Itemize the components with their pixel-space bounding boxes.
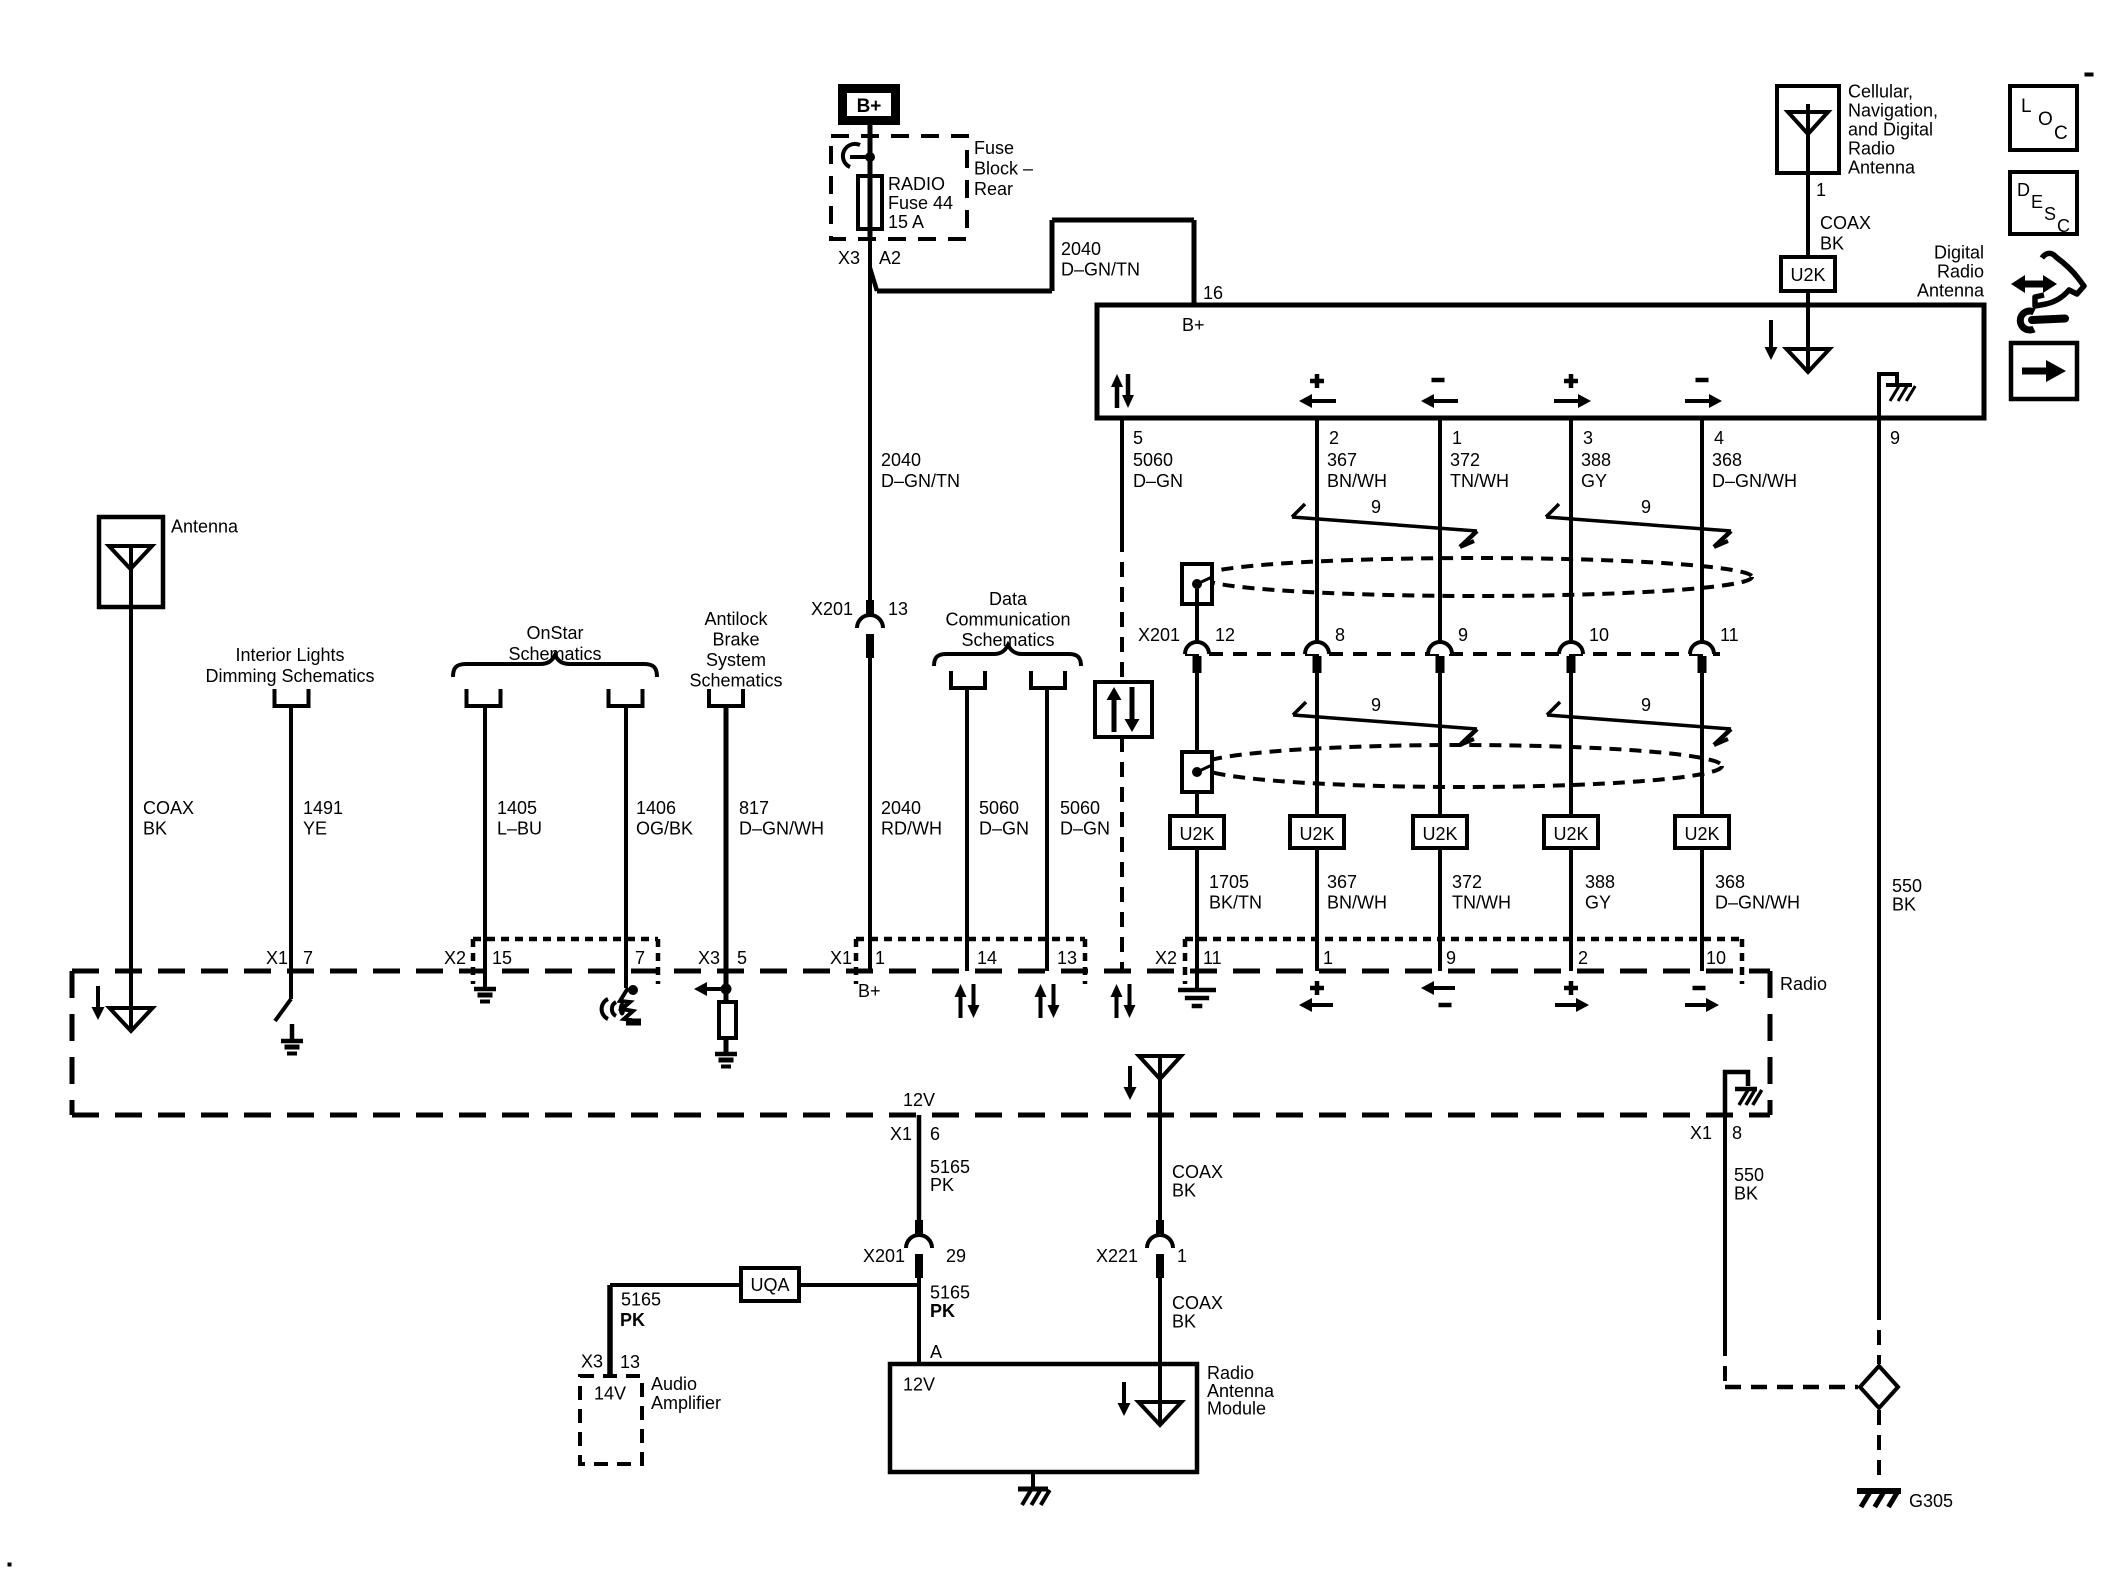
svg-text:COAX: COAX — [1820, 213, 1871, 233]
svg-text:U2K: U2K — [1422, 824, 1457, 844]
svg-text:GY: GY — [1585, 893, 1611, 913]
svg-text:372: 372 — [1450, 450, 1480, 470]
svg-text:X1: X1 — [266, 948, 288, 968]
svg-text:BN/WH: BN/WH — [1327, 471, 1387, 491]
svg-text:1: 1 — [1816, 180, 1826, 200]
svg-text:9: 9 — [1458, 625, 1468, 645]
svg-text:13: 13 — [1057, 948, 1077, 968]
svg-text:X221: X221 — [1096, 1246, 1138, 1266]
svg-text:System: System — [706, 650, 766, 670]
svg-text:Radio: Radio — [1780, 974, 1827, 994]
svg-text:Module: Module — [1207, 1399, 1266, 1419]
svg-text:L–BU: L–BU — [497, 819, 542, 839]
svg-text:Radio: Radio — [1937, 262, 1984, 282]
svg-text:D–GN: D–GN — [1133, 471, 1183, 491]
svg-text:1: 1 — [875, 948, 885, 968]
svg-text:X2: X2 — [444, 948, 466, 968]
svg-text:PK: PK — [930, 1301, 955, 1321]
svg-text:G305: G305 — [1909, 1491, 1953, 1511]
svg-text:S: S — [2044, 204, 2056, 224]
svg-text:Antilock: Antilock — [704, 609, 768, 629]
svg-text:Digital: Digital — [1934, 243, 1984, 263]
svg-text:367: 367 — [1327, 872, 1357, 892]
svg-text:A2: A2 — [879, 248, 901, 268]
svg-text:11: 11 — [1720, 625, 1739, 645]
svg-text:BK: BK — [1734, 1184, 1758, 1204]
svg-text:D–GN/WH: D–GN/WH — [739, 819, 824, 839]
svg-text:550: 550 — [1734, 1165, 1764, 1185]
svg-text:9: 9 — [1641, 497, 1651, 517]
svg-text:Radio: Radio — [1848, 139, 1895, 159]
svg-text:368: 368 — [1715, 872, 1745, 892]
svg-text:3: 3 — [1583, 428, 1593, 448]
svg-text:X1: X1 — [890, 1124, 912, 1144]
svg-text:Audio: Audio — [651, 1374, 697, 1394]
svg-text:RADIO: RADIO — [888, 174, 945, 194]
svg-text:BN/WH: BN/WH — [1327, 893, 1387, 913]
svg-text:Block –: Block – — [974, 159, 1033, 179]
svg-text:8: 8 — [1732, 1123, 1742, 1143]
svg-text:D: D — [2017, 180, 2030, 200]
svg-text:Antenna: Antenna — [1917, 281, 1985, 301]
svg-text:Antenna: Antenna — [1848, 158, 1916, 178]
svg-text:14: 14 — [977, 948, 997, 968]
svg-text:368: 368 — [1712, 450, 1742, 470]
svg-text:8: 8 — [1335, 625, 1345, 645]
svg-text:Schematics: Schematics — [689, 671, 782, 691]
svg-text:TN/WH: TN/WH — [1452, 893, 1511, 913]
svg-text:U2K: U2K — [1179, 824, 1214, 844]
svg-text:X201: X201 — [1138, 625, 1180, 645]
svg-text:U2K: U2K — [1299, 824, 1334, 844]
svg-text:X201: X201 — [863, 1246, 905, 1266]
svg-text:YE: YE — [303, 819, 327, 839]
svg-text:Data: Data — [989, 589, 1028, 609]
svg-text:11: 11 — [1203, 948, 1222, 968]
svg-text:817: 817 — [739, 798, 769, 818]
svg-text:12: 12 — [1215, 625, 1235, 645]
svg-text:BK: BK — [1172, 1312, 1196, 1332]
svg-text:COAX: COAX — [1172, 1293, 1223, 1313]
svg-text:5165: 5165 — [621, 1290, 661, 1310]
svg-text:367: 367 — [1327, 450, 1357, 470]
svg-text:C: C — [2057, 216, 2070, 236]
svg-text:Navigation,: Navigation, — [1848, 101, 1938, 121]
svg-text:5: 5 — [737, 948, 747, 968]
svg-text:5: 5 — [1133, 428, 1143, 448]
svg-text:and Digital: and Digital — [1848, 120, 1933, 140]
svg-text:X1: X1 — [1690, 1123, 1712, 1143]
svg-text:1: 1 — [1452, 428, 1462, 448]
svg-text:COAX: COAX — [1172, 1162, 1223, 1182]
svg-text:14V: 14V — [594, 1384, 626, 1404]
svg-text:1: 1 — [1323, 948, 1333, 968]
svg-text:7: 7 — [635, 948, 645, 968]
svg-text:9: 9 — [1371, 497, 1381, 517]
svg-text:2040: 2040 — [881, 798, 921, 818]
svg-text:Rear: Rear — [974, 179, 1013, 199]
svg-text:D–GN: D–GN — [1060, 819, 1110, 839]
svg-text:BK: BK — [143, 819, 167, 839]
svg-text:12V: 12V — [903, 1090, 935, 1110]
svg-text:Cellular,: Cellular, — [1848, 82, 1913, 102]
svg-text:15: 15 — [492, 948, 512, 968]
svg-text:B+: B+ — [858, 981, 881, 1001]
svg-text:RD/WH: RD/WH — [881, 819, 942, 839]
svg-text:Amplifier: Amplifier — [651, 1393, 721, 1413]
svg-text:BK: BK — [1892, 895, 1916, 915]
svg-text:1705: 1705 — [1209, 872, 1249, 892]
svg-text:Fuse 44: Fuse 44 — [888, 193, 953, 213]
svg-text:BK/TN: BK/TN — [1209, 893, 1262, 913]
svg-text:1405: 1405 — [497, 798, 537, 818]
svg-text:X2: X2 — [1155, 948, 1177, 968]
svg-text:7: 7 — [303, 948, 313, 968]
svg-text:550: 550 — [1892, 876, 1922, 896]
svg-text:PK: PK — [930, 1175, 954, 1195]
svg-text:B+: B+ — [857, 96, 882, 117]
svg-text:D–GN/WH: D–GN/WH — [1715, 893, 1800, 913]
svg-text:5060: 5060 — [1060, 798, 1100, 818]
svg-text:9: 9 — [1371, 695, 1381, 715]
svg-text:2040: 2040 — [1061, 239, 1101, 259]
svg-text:D–GN/TN: D–GN/TN — [1061, 260, 1140, 280]
svg-text:Dimming Schematics: Dimming Schematics — [205, 666, 374, 686]
svg-text:BK: BK — [1820, 234, 1844, 254]
svg-text:Antenna: Antenna — [171, 517, 239, 537]
svg-text:BK: BK — [1172, 1181, 1196, 1201]
svg-text:4: 4 — [1714, 428, 1724, 448]
svg-text:Brake: Brake — [712, 630, 759, 650]
svg-text:13: 13 — [620, 1352, 640, 1372]
svg-text:9: 9 — [1641, 695, 1651, 715]
svg-text:TN/WH: TN/WH — [1450, 471, 1509, 491]
svg-text:X3: X3 — [838, 248, 860, 268]
svg-text:Interior Lights: Interior Lights — [235, 645, 344, 665]
svg-text:29: 29 — [946, 1246, 966, 1266]
svg-text:5165: 5165 — [930, 1157, 970, 1177]
svg-text:PK: PK — [620, 1310, 645, 1330]
svg-text:OG/BK: OG/BK — [636, 819, 693, 839]
svg-text:UQA: UQA — [750, 1275, 789, 1295]
svg-text:X201: X201 — [811, 599, 853, 619]
svg-text:388: 388 — [1585, 872, 1615, 892]
svg-text:X3: X3 — [698, 948, 720, 968]
svg-text:O: O — [2038, 109, 2053, 130]
svg-text:5060: 5060 — [1133, 450, 1173, 470]
svg-text:2: 2 — [1578, 948, 1588, 968]
svg-text:5165: 5165 — [930, 1283, 970, 1303]
svg-text:2: 2 — [1329, 428, 1339, 448]
svg-text:9: 9 — [1446, 948, 1456, 968]
svg-text:1406: 1406 — [636, 798, 676, 818]
svg-text:10: 10 — [1589, 625, 1609, 645]
svg-text:D–GN/WH: D–GN/WH — [1712, 471, 1797, 491]
svg-text:12V: 12V — [903, 1375, 935, 1395]
svg-text:372: 372 — [1452, 872, 1482, 892]
svg-text:16: 16 — [1203, 283, 1223, 303]
svg-text:10: 10 — [1706, 948, 1726, 968]
svg-text:13: 13 — [888, 599, 908, 619]
svg-text:U2K: U2K — [1553, 824, 1588, 844]
svg-text:A: A — [930, 1342, 942, 1362]
svg-text:Fuse: Fuse — [974, 138, 1014, 158]
svg-text:OnStar: OnStar — [526, 623, 583, 643]
svg-text:B+: B+ — [1182, 315, 1205, 335]
svg-text:U2K: U2K — [1790, 265, 1825, 285]
svg-text:X1: X1 — [830, 948, 852, 968]
svg-text:1: 1 — [1177, 1246, 1187, 1266]
svg-text:388: 388 — [1581, 450, 1611, 470]
svg-text:5060: 5060 — [979, 798, 1019, 818]
svg-text:15 A: 15 A — [888, 212, 924, 232]
svg-text:D–GN: D–GN — [979, 819, 1029, 839]
svg-text:6: 6 — [930, 1124, 940, 1144]
svg-text:9: 9 — [1890, 428, 1900, 448]
svg-text:COAX: COAX — [143, 798, 194, 818]
svg-text:E: E — [2031, 192, 2043, 212]
svg-text:2040: 2040 — [881, 450, 921, 470]
svg-text:C: C — [2054, 123, 2068, 144]
svg-text:U2K: U2K — [1684, 824, 1719, 844]
svg-text:X3: X3 — [581, 1352, 603, 1372]
svg-text:L: L — [2021, 96, 2032, 117]
svg-text:D–GN/TN: D–GN/TN — [881, 471, 960, 491]
svg-text:1491: 1491 — [303, 798, 343, 818]
svg-text:Communication: Communication — [945, 610, 1070, 630]
svg-text:GY: GY — [1581, 471, 1607, 491]
